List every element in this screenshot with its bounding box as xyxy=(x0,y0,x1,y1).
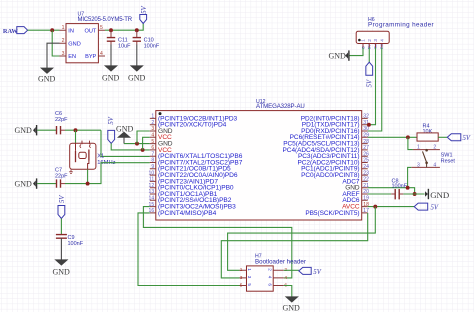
wire GND rows xyxy=(124,143,150,145)
svg-text:(PCINT4/MISO)PB4: (PCINT4/MISO)PB4 xyxy=(158,210,217,217)
wire H6 pin2 to 5V xyxy=(368,48,370,63)
U12 right pin stubs xyxy=(362,118,368,212)
capacitor C6 xyxy=(55,111,68,134)
ground under C9 xyxy=(53,260,71,277)
node junction reset xyxy=(406,135,410,139)
svg-text:5V: 5V xyxy=(141,5,148,13)
svg-text:14: 14 xyxy=(149,196,155,202)
header H7 bootloader xyxy=(240,253,306,291)
svg-text:GND: GND xyxy=(53,268,71,277)
svg-text:MIC5205-5.0YM5-TR: MIC5205-5.0YM5-TR xyxy=(78,17,133,23)
power flag 5V at H7 xyxy=(299,267,322,276)
svg-text:GND: GND xyxy=(38,75,56,84)
svg-text:BYP: BYP xyxy=(85,54,96,60)
wire H7 pin2 to 5V flag xyxy=(284,269,299,271)
wire C11 to ground xyxy=(110,45,112,66)
capacitor C7 xyxy=(55,168,68,188)
svg-text:100nF: 100nF xyxy=(392,184,408,190)
svg-text:4: 4 xyxy=(379,39,385,42)
svg-text:2: 2 xyxy=(267,268,272,271)
header H6 programming xyxy=(356,17,434,49)
svg-text:Programming header: Programming header xyxy=(368,22,434,29)
svg-text:100nF: 100nF xyxy=(144,43,160,49)
node junction at C10 xyxy=(135,28,139,32)
svg-text:ATMEGA328P-AU: ATMEGA328P-AU xyxy=(256,103,305,110)
node junction gnd/aref xyxy=(413,192,417,196)
power flag 5V at H6 xyxy=(366,62,374,87)
svg-text:11: 11 xyxy=(149,177,154,183)
svg-text:RAW: RAW xyxy=(3,28,19,35)
U12 left pin labels xyxy=(158,115,243,217)
wire junction down to EN xyxy=(52,30,59,56)
svg-text:1: 1 xyxy=(361,39,367,42)
svg-text:6: 6 xyxy=(267,283,272,286)
capacitor C11 xyxy=(107,30,131,49)
svg-text:32: 32 xyxy=(363,114,369,120)
wire H6 pin1 to gnd xyxy=(350,48,364,56)
svg-text:GND: GND xyxy=(15,126,33,135)
wire MISO rail PB4 to H7 pin5 xyxy=(138,213,240,286)
svg-text:4: 4 xyxy=(151,133,154,139)
svg-text:3: 3 xyxy=(417,162,420,168)
svg-text:GND: GND xyxy=(329,52,347,61)
capacitor C8 xyxy=(391,179,408,200)
svg-text:23: 23 xyxy=(363,170,369,176)
svg-text:4: 4 xyxy=(100,51,103,57)
wire VCC row4 xyxy=(143,137,150,150)
power flag 5V top xyxy=(140,5,148,23)
ground flag at C7 xyxy=(15,178,37,188)
svg-text:5: 5 xyxy=(247,283,252,286)
node junction XTAL2 xyxy=(86,182,90,186)
svg-text:4: 4 xyxy=(267,276,272,279)
capacitor C9 xyxy=(56,235,84,247)
U12 left pin stubs xyxy=(150,118,156,212)
regulator U7 xyxy=(60,12,133,63)
svg-text:2: 2 xyxy=(62,38,65,44)
wire R4 to 5V xyxy=(438,136,447,138)
svg-text:GND: GND xyxy=(116,124,134,133)
svg-text:28: 28 xyxy=(363,139,369,145)
ground under H7 xyxy=(283,297,301,312)
wire RAW to U7 IN xyxy=(28,29,60,31)
wire C6 to crystal node xyxy=(65,129,101,131)
wire H6 pin4 to PD0 xyxy=(368,48,382,132)
IC U12 ATMEGA328P-AU xyxy=(156,99,362,220)
wire C7 to crystal pin2 and PB7 xyxy=(65,163,150,184)
svg-text:5V: 5V xyxy=(367,79,374,87)
svg-text:1: 1 xyxy=(240,267,243,273)
wire reset junction to SW1 xyxy=(408,137,413,149)
svg-text:GND: GND xyxy=(128,74,146,83)
switch SW1 xyxy=(411,145,455,169)
svg-text:2: 2 xyxy=(151,120,154,126)
ground at U12 left xyxy=(116,124,134,143)
svg-text:3: 3 xyxy=(373,39,379,42)
svg-text:GND: GND xyxy=(15,180,33,189)
svg-text:5V: 5V xyxy=(59,195,66,203)
ground flag at C8 xyxy=(425,189,449,200)
wire gndflag to C6 xyxy=(37,129,56,131)
svg-text:19: 19 xyxy=(363,196,369,202)
svg-text:27: 27 xyxy=(363,145,369,151)
power flag 5V at C9 xyxy=(58,195,66,219)
node junction gnd/sw xyxy=(406,186,410,190)
wire H7 pin6 to gnd xyxy=(284,286,292,297)
resistor R4 xyxy=(417,123,438,141)
wire XTAL1 to PB6 xyxy=(101,130,150,156)
node junction GND rows xyxy=(135,142,139,146)
wire SCK rail PB5 to H7 pin3 xyxy=(221,213,367,278)
svg-text:GND: GND xyxy=(102,74,120,83)
wire AREF row to C8 xyxy=(368,193,392,195)
node junction at RAW/EN xyxy=(50,28,54,32)
svg-text:1: 1 xyxy=(247,268,252,271)
wire 5V flag to VCC rows xyxy=(111,143,150,150)
U12 right pin labels xyxy=(283,115,360,217)
svg-text:4: 4 xyxy=(284,275,287,281)
svg-text:5V: 5V xyxy=(463,135,471,142)
wire gndflag to C7 xyxy=(37,183,56,185)
svg-text:GND: GND xyxy=(283,303,301,312)
svg-text:3: 3 xyxy=(62,51,65,57)
power flag 5V at U12 VCC xyxy=(108,116,115,143)
wire GND row 21 xyxy=(368,188,415,194)
svg-text:100nF: 100nF xyxy=(68,241,84,247)
svg-text:X1: X1 xyxy=(97,153,104,159)
ground flag at H6 xyxy=(329,50,349,60)
U12 left pin numbers xyxy=(149,114,155,215)
wire C8 to gnd flag xyxy=(403,193,424,195)
svg-text:10: 10 xyxy=(149,170,155,176)
svg-text:8: 8 xyxy=(151,158,154,164)
ground under C10 xyxy=(128,66,146,83)
svg-text:5V: 5V xyxy=(313,269,321,276)
svg-text:5: 5 xyxy=(151,139,154,145)
svg-text:GND: GND xyxy=(68,41,80,47)
svg-text:3: 3 xyxy=(247,276,252,279)
svg-text:5: 5 xyxy=(100,25,103,31)
svg-text:PB5(SCK/PCINT5): PB5(SCK/PCINT5) xyxy=(305,210,359,217)
svg-text:17: 17 xyxy=(363,208,369,214)
node junction AVCC xyxy=(373,205,377,209)
svg-text:OUT: OUT xyxy=(84,28,96,34)
wire U7 OUT rail to 5V xyxy=(105,24,143,31)
svg-text:12: 12 xyxy=(149,183,155,189)
wire H6 pin3 to PD1 xyxy=(368,48,376,125)
ground under U7 xyxy=(38,68,56,84)
svg-text:EN: EN xyxy=(68,54,76,60)
svg-text:6: 6 xyxy=(151,145,154,151)
node RAW flag xyxy=(3,27,28,35)
node junction XTAL1 xyxy=(74,128,78,132)
wire junction down to crystal pin1 xyxy=(75,130,77,143)
wire MOSI rail PB3 to H7 pin4 xyxy=(143,207,291,278)
wire crystal pin2 down xyxy=(87,169,89,183)
power flag 5V at R4 xyxy=(447,134,471,142)
svg-text:22pF: 22pF xyxy=(55,174,68,180)
node junction PD1 xyxy=(367,123,371,127)
U12 right pin numbers xyxy=(363,114,369,215)
svg-text:1: 1 xyxy=(62,25,65,31)
ground flag at C6 xyxy=(15,125,37,135)
wire C9 to ground xyxy=(60,238,62,260)
svg-text:22: 22 xyxy=(363,177,369,183)
svg-text:1: 1 xyxy=(151,114,154,120)
svg-text:13: 13 xyxy=(149,189,155,195)
wire GND row3 xyxy=(137,131,150,144)
svg-text:2: 2 xyxy=(433,145,436,151)
wire PC6 reset row xyxy=(368,136,417,138)
svg-text:9: 9 xyxy=(151,164,154,170)
svg-text:2: 2 xyxy=(367,39,373,42)
svg-text:3: 3 xyxy=(151,126,154,132)
svg-text:4: 4 xyxy=(433,162,436,168)
node junction at C11 xyxy=(109,28,113,32)
svg-text:5V: 5V xyxy=(108,116,115,124)
wire C10 to ground xyxy=(136,45,138,66)
wire AVCC row to 5V xyxy=(368,206,415,208)
svg-text:24: 24 xyxy=(363,164,369,170)
svg-text:1: 1 xyxy=(417,145,420,151)
crystal X1 xyxy=(69,141,115,174)
svg-text:Bootloader header: Bootloader header xyxy=(255,259,306,266)
node junction VCC xyxy=(141,148,145,152)
svg-text:26: 26 xyxy=(363,151,369,157)
capacitor C10 xyxy=(133,30,160,49)
svg-text:25: 25 xyxy=(363,158,369,164)
svg-text:GND: GND xyxy=(430,190,449,200)
wire U7 GND pin to ground xyxy=(47,43,60,68)
ground under C11 xyxy=(102,66,120,83)
svg-text:7: 7 xyxy=(151,151,154,157)
wire 5V to C9 xyxy=(60,219,62,235)
wire SW1 pin3 to gnd row xyxy=(408,167,412,187)
svg-text:3: 3 xyxy=(240,275,243,281)
svg-text:10uF: 10uF xyxy=(118,43,131,49)
svg-text:IN: IN xyxy=(68,28,74,34)
wire 5V rail to H7 pin1 xyxy=(228,207,376,271)
svg-text:5V: 5V xyxy=(431,205,439,212)
svg-text:Reset: Reset xyxy=(441,158,456,164)
power flag 5V at AVCC xyxy=(414,203,439,212)
svg-text:5: 5 xyxy=(240,282,243,288)
svg-text:22pF: 22pF xyxy=(55,117,68,123)
